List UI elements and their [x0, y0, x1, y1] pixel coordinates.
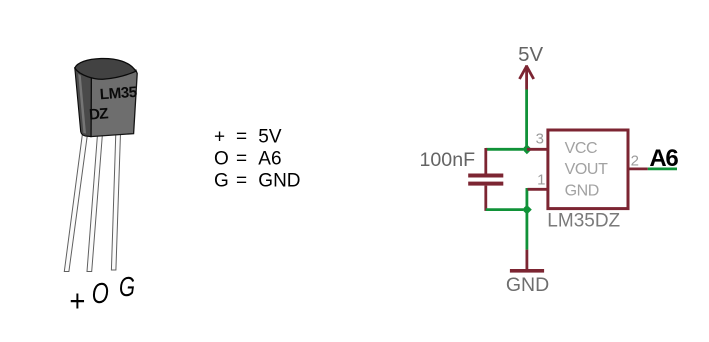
pin 2 stub (maroon) — [630, 167, 648, 170]
LM35 package lead G (right leg) — [111, 133, 120, 270]
LM35 package side highlight — [78, 74, 86, 134]
svg-text:O=A6: O=A6 — [214, 148, 282, 169]
svg-text:+: + — [69, 283, 85, 318]
svg-text:+=5V: +=5V — [214, 126, 282, 147]
svg-text:LM35: LM35 — [99, 84, 138, 104]
LM35 package body front face — [91, 70, 137, 137]
svg-text:G=GND: G=GND — [214, 170, 301, 191]
wire VOUT to A6 (green) — [648, 167, 677, 170]
svg-text:GND: GND — [565, 182, 599, 199]
svg-text:1: 1 — [537, 171, 545, 188]
svg-text:O: O — [92, 278, 109, 310]
node junction VCC (diamond) — [522, 144, 532, 154]
pin 1 stub (maroon) — [528, 188, 550, 191]
svg-text:LM35DZ: LM35DZ — [547, 211, 620, 232]
wire to ground symbol (maroon vertical) — [526, 250, 529, 270]
wire 5V arrow to VCC node (green vertical) — [525, 90, 528, 148]
pin mapping legend — [214, 126, 301, 191]
power supply 5V arrow symbol — [520, 65, 534, 89]
svg-text:G: G — [119, 271, 135, 302]
wire GND node up to pin 1 (green vertical) — [526, 188, 529, 206]
svg-text:GND: GND — [506, 274, 549, 296]
svg-text:100nF: 100nF — [420, 149, 476, 171]
wire capacitor bottom to GND node (green horizontal) — [486, 208, 523, 211]
wire VCC node to capacitor top (green horizontal) — [486, 148, 523, 151]
svg-text:5V: 5V — [518, 44, 543, 66]
pin 3 stub (maroon) — [527, 148, 550, 151]
wire GND node down (green vertical) — [526, 213, 529, 250]
svg-text:VCC: VCC — [565, 140, 598, 157]
IC U1 LM35DZ body — [548, 130, 628, 209]
node junction GND (diamond) — [522, 205, 532, 215]
svg-text:DZ: DZ — [88, 105, 108, 123]
LM35 package lead + (left leg) — [64, 131, 88, 272]
ground symbol bar — [510, 269, 544, 273]
LM35 package left side face — [75, 68, 92, 137]
svg-text:3: 3 — [536, 131, 544, 148]
LM35 package lead O (middle leg) — [87, 133, 103, 272]
svg-text:VOUT: VOUT — [565, 161, 608, 178]
LM35 package top dome — [75, 58, 136, 79]
svg-text:A6: A6 — [649, 145, 678, 172]
capacitor C1 100nF plates — [468, 174, 503, 178]
capacitor C1 top lead (maroon vertical) — [484, 148, 487, 174]
capacitor C1 bottom lead (maroon vertical) — [484, 186, 487, 211]
svg-text:2: 2 — [631, 153, 639, 170]
